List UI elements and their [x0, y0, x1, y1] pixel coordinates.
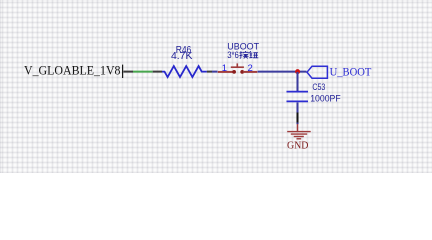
svg-text:1000PF: 1000PF [310, 93, 341, 103]
svg-text:2: 2 [248, 63, 253, 74]
svg-text:1: 1 [222, 63, 227, 74]
svg-text:U_BOOT: U_BOOT [330, 64, 373, 78]
svg-text:4.7K: 4.7K [171, 51, 193, 62]
svg-text:3*6: 3*6 [227, 50, 239, 61]
svg-text:GND: GND [287, 140, 309, 151]
svg-text:V_GLOABLE_1V8: V_GLOABLE_1V8 [24, 64, 121, 78]
svg-text:C53: C53 [312, 82, 325, 92]
